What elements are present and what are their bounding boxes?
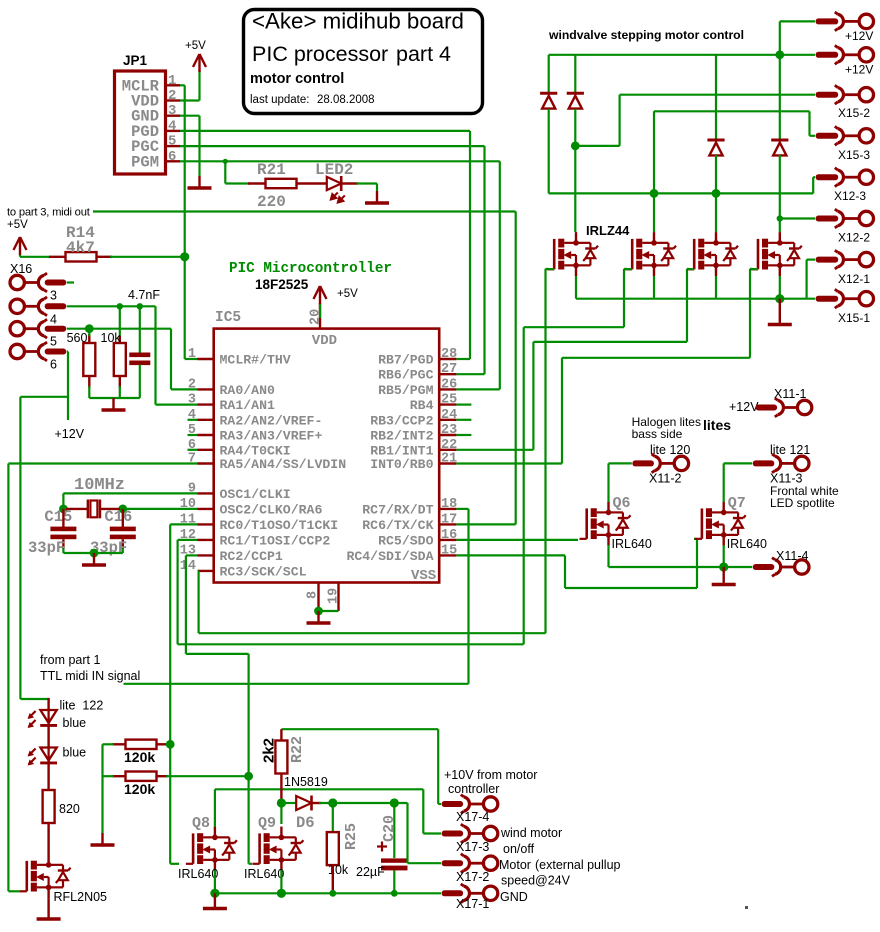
wire to lite string: [20, 698, 48, 700]
svg-text:LED spotlite: LED spotlite: [770, 496, 835, 510]
resistor 10k: [114, 343, 126, 376]
IC5 pin 20 VDD stub: [319, 303, 321, 328]
wire D1 bottom to X12-3 row: [548, 109, 550, 193]
connector X11-2: [632, 454, 688, 473]
wire RB1 vertical up: [532, 342, 534, 450]
resistor R25: [327, 832, 339, 865]
junction C20 bottom: [391, 890, 398, 897]
svg-text:IRL640: IRL640: [178, 867, 218, 881]
IC5 pin 22 stub: [439, 449, 456, 451]
svg-text:TTL midi IN signal: TTL midi IN signal: [40, 669, 140, 683]
svg-text:1: 1: [188, 347, 196, 362]
LED2 cathode lead: [342, 182, 358, 184]
svg-text:X11-2: X11-2: [649, 472, 681, 486]
svg-text:220: 220: [257, 193, 286, 211]
ground (LED2): [365, 191, 389, 203]
wire pin22 out: [456, 449, 533, 451]
svg-text:28.08.2008: 28.08.2008: [317, 94, 375, 106]
svg-text:C20: C20: [381, 815, 398, 842]
wire to D6: [281, 802, 296, 804]
IC5 pin 15 stub: [439, 554, 456, 556]
wire pin25 stub: [456, 404, 471, 406]
wire RC4 run: [565, 587, 697, 589]
wire PGM run: [180, 160, 500, 162]
svg-text:bass side: bass side: [632, 427, 683, 441]
svg-text:33pF: 33pF: [28, 539, 65, 557]
connector X11-3: [753, 454, 809, 473]
svg-text:RA3/AN3/VREF+: RA3/AN3/VREF+: [220, 429, 323, 444]
svg-text:5: 5: [50, 335, 57, 349]
wire drop to X17-3: [422, 789, 424, 833]
IC5 pin 16 stub: [439, 539, 456, 541]
svg-text:+5V: +5V: [337, 288, 358, 300]
IC5 pin 11 stub: [198, 523, 214, 525]
wire D3 top: [715, 55, 717, 140]
IC5 pin 19 stub: [337, 583, 339, 612]
connector X15-2: [816, 85, 874, 104]
wire X15-2 run: [620, 94, 815, 96]
svg-text:27: 27: [441, 362, 457, 377]
wire X12-3 stub: [813, 176, 815, 178]
IC5 pin 10 stub: [198, 508, 214, 510]
junction X16-4/10k: [117, 303, 123, 309]
wire D2 top: [574, 55, 576, 93]
svg-text:+5V: +5V: [185, 40, 206, 52]
ground (bottom bus): [203, 897, 227, 909]
wire RC4 riser to Q7 gate: [696, 539, 698, 588]
wire X16-5 vertical: [170, 329, 172, 390]
wire to R21: [225, 182, 250, 184]
junction PGM/R21: [223, 159, 228, 164]
wire RC4 drop: [564, 555, 566, 588]
svg-text:10k: 10k: [328, 863, 349, 877]
svg-text:25: 25: [441, 393, 457, 408]
connector X12-3: [816, 168, 874, 187]
IC5 pin 17 stub: [439, 523, 456, 525]
wire Q6 to X11-2: [609, 462, 632, 464]
svg-text:PGM: PGM: [131, 153, 159, 171]
svg-text:JP1: JP1: [123, 53, 148, 68]
connector X12-2: [816, 209, 874, 228]
wire pin27 out: [456, 373, 484, 375]
connector JP1: [115, 71, 166, 174]
820 bottom lead: [47, 823, 49, 854]
junction R25 top: [328, 798, 337, 807]
svg-text:2: 2: [188, 377, 196, 392]
svg-text:8: 8: [306, 591, 321, 599]
svg-text:21: 21: [441, 452, 457, 467]
wire X16-6 to +12V: [67, 352, 69, 421]
wire source bus to X11-4: [609, 566, 753, 568]
wire pin5 stub: [188, 434, 198, 436]
svg-text:IRL640: IRL640: [727, 537, 767, 551]
LED blue #2: [28, 748, 57, 766]
wire JP1-2 to +5V: [180, 99, 200, 101]
wire cap bottom: [139, 365, 141, 399]
C16 bottom lead: [122, 539, 124, 549]
svg-text:4: 4: [168, 118, 176, 134]
svg-text:560: 560: [67, 331, 88, 345]
svg-text:controller: controller: [448, 782, 499, 796]
wire Q7 to X11-3: [724, 462, 753, 464]
junction X12-3/T3: [712, 189, 721, 198]
svg-text:22µF: 22µF: [356, 865, 385, 879]
svg-text:24: 24: [441, 408, 457, 423]
wire pin4 stub: [188, 419, 198, 421]
JP1 pin 3 stub: [166, 114, 181, 116]
wire X16-3 stub: [67, 281, 74, 283]
svg-text:@24V: @24V: [535, 874, 571, 888]
svg-text:RB4: RB4: [410, 398, 434, 413]
svg-text:X17-4: X17-4: [456, 810, 489, 824]
svg-text:speed: speed: [501, 874, 535, 888]
connector X17-3: [442, 824, 498, 843]
wire cap top: [139, 306, 141, 353]
connector +12V (top): [816, 12, 874, 31]
svg-text:7: 7: [188, 452, 196, 467]
wire PGD run: [180, 130, 470, 132]
junction RC2/120k#2: [244, 772, 253, 781]
wire PGC run: [180, 145, 485, 147]
wire X16-4 run: [67, 305, 156, 307]
IC5 pin 6 stub: [198, 449, 214, 451]
IC5 pin 27 stub: [439, 373, 456, 375]
wire pin12 out: [178, 539, 198, 541]
wire PGD vertical to pin28: [469, 131, 471, 359]
junction crystal left: [59, 505, 68, 514]
C15 bottom lead: [62, 539, 64, 549]
IC5 pin 21 stub: [439, 462, 456, 464]
wire D4 top: [779, 55, 781, 140]
wire Q9 gate vertical: [248, 776, 250, 864]
wire R21 drop: [224, 161, 226, 183]
connector X15-1: [816, 289, 874, 308]
+5V supply arrow (JP1): [193, 54, 206, 72]
svg-text:+10V from motor: +10V from motor: [444, 768, 537, 782]
wire Q7 drain riser: [723, 463, 725, 502]
R21 lead left: [248, 182, 266, 184]
wire TTL midi run: [124, 683, 469, 685]
wire PGM vertical to pin26: [499, 161, 501, 389]
wire T4 gate riser: [749, 269, 751, 358]
svg-text:OSC2/CLKO/RA6: OSC2/CLKO/RA6: [220, 502, 323, 517]
wire D6 row: [319, 802, 408, 804]
C15 top lead: [62, 509, 64, 527]
connector X11-4: [753, 558, 809, 577]
capacitor 4.7nF: [129, 353, 150, 366]
transistor IRLZ44 #4: [751, 232, 802, 276]
ground (560/10k cluster): [102, 398, 126, 410]
svg-text:RC6/TX/CK: RC6/TX/CK: [362, 518, 433, 533]
svg-text:RB7/PGD: RB7/PGD: [378, 353, 433, 368]
LED blue #1: [28, 710, 57, 728]
svg-text:Q8: Q8: [192, 815, 210, 832]
svg-text:Q9: Q9: [258, 815, 276, 832]
wire RC1 run right: [178, 643, 524, 645]
svg-text:X15-3: X15-3: [838, 148, 870, 162]
svg-text:Motor: Motor: [499, 858, 531, 872]
wire OSC2 run: [123, 508, 198, 510]
C20 plus sign: [377, 842, 387, 852]
junction Q9 drain/D6: [277, 798, 286, 807]
wire 120k#2 left: [103, 775, 115, 777]
connector X17-4: [442, 795, 498, 814]
wire JP1-3 to GND: [180, 115, 200, 117]
transistor Q8 IRL640: [186, 827, 237, 871]
svg-text:X12-1: X12-1: [838, 272, 870, 286]
IC5 pin 1 stub: [198, 358, 214, 360]
wire RFL2N05 gate lead: [8, 890, 19, 892]
wire GND drop: [198, 116, 200, 176]
svg-text:RC2/CCP1: RC2/CCP1: [220, 549, 283, 564]
JP1 pin 1 stub: [166, 84, 181, 86]
svg-text:X11-1: X11-1: [774, 387, 806, 401]
+5V supply arrow (VDD): [314, 286, 327, 304]
wire X17-2 riser: [406, 803, 408, 863]
IC5 pin 12 stub: [198, 539, 214, 541]
JP1 pin 4 stub: [166, 130, 181, 132]
diode D4: [771, 140, 788, 155]
wire Q9 drain to D6 node: [280, 803, 282, 824]
wire T2 source drop: [653, 276, 655, 299]
wire X12-1 drop: [805, 260, 807, 299]
wire branch to RA5 net: [20, 396, 68, 398]
wire into X17-2: [408, 862, 442, 864]
wire VDD riser: [319, 304, 321, 319]
svg-text:28: 28: [441, 347, 457, 362]
ground (JP1 pin3): [188, 176, 212, 188]
svg-text:part 4: part 4: [396, 42, 451, 66]
svg-text:Q6: Q6: [613, 495, 631, 512]
wire RC2 run right: [186, 653, 249, 655]
svg-text:IRL640: IRL640: [612, 537, 652, 551]
JP1 pin 6 stub: [166, 160, 181, 162]
svg-text:last update:: last update:: [250, 94, 309, 106]
junction VSS: [314, 607, 323, 616]
wire pin18 out: [456, 508, 468, 510]
svg-text:RB3/CCP2: RB3/CCP2: [370, 413, 433, 428]
resistor R21: [266, 179, 297, 188]
svg-text:<Ake> midihub board: <Ake> midihub board: [252, 9, 464, 34]
wire 560 top: [88, 329, 90, 336]
connector X17-1: [442, 884, 498, 903]
svg-text:RC4/SDI/SDA: RC4/SDI/SDA: [346, 549, 433, 564]
svg-text:4k7: 4k7: [66, 239, 95, 257]
wire X15-2 tie to T1 drain: [575, 145, 619, 147]
wire pin24 stub: [456, 419, 471, 421]
svg-text:RC1/T1OSI/CCP2: RC1/T1OSI/CCP2: [220, 533, 331, 548]
junction X12-3/T2: [650, 189, 659, 198]
wire RA5 run: [8, 462, 197, 464]
svg-text:MCLR#/THV: MCLR#/THV: [220, 353, 291, 368]
svg-text:RB6/PGC: RB6/PGC: [378, 368, 433, 383]
wire RC3 run right: [199, 632, 546, 634]
diode D3: [707, 140, 724, 155]
wire Q7 gate tie: [694, 538, 697, 540]
svg-text:19: 19: [327, 588, 342, 604]
svg-text:16: 16: [441, 528, 457, 543]
svg-text:X15-1: X15-1: [838, 311, 870, 325]
wire OSC1 run: [63, 492, 197, 494]
junction X15-2 tap: [571, 142, 580, 151]
wire C20 bottom lead: [393, 870, 395, 893]
svg-text:OSC1/CLKI: OSC1/CLKI: [220, 487, 291, 502]
junction +12V rail: [775, 50, 784, 59]
svg-text:to part 3, midi out: to part 3, midi out: [7, 207, 91, 219]
svg-text:RC3/SCK/SCL: RC3/SCK/SCL: [220, 564, 307, 579]
svg-text:RB5/PGM: RB5/PGM: [378, 383, 433, 398]
wire pin16 to Q6 gate: [456, 539, 578, 541]
svg-text:14: 14: [180, 559, 196, 574]
wire LED2 to gnd: [356, 182, 377, 184]
wire far-left vertical to RFL2N05 gate: [7, 464, 9, 892]
junction RC0/120k#1: [166, 740, 175, 749]
wire 560 bottom: [88, 386, 90, 398]
resistor R22: [275, 741, 287, 774]
wire R25 top lead: [332, 803, 334, 832]
wire pin15 out: [456, 554, 565, 556]
wire LED2 gnd drop: [376, 184, 378, 192]
wire C20 top lead: [393, 803, 395, 858]
wire X15-3 stub: [810, 135, 816, 137]
connector X12-1: [816, 250, 874, 269]
svg-text:+12V: +12V: [55, 427, 85, 441]
wire T2 gate drop: [623, 269, 625, 327]
ground (stepper bus): [768, 313, 792, 325]
svg-text:X11-4: X11-4: [776, 549, 808, 563]
wire RC3 vertical up (T1 gate): [544, 269, 546, 633]
svg-text:2: 2: [168, 88, 176, 104]
svg-text:X15-2: X15-2: [838, 106, 870, 120]
ground (crystal): [82, 553, 106, 565]
wire T3 gate lead: [687, 268, 694, 271]
svg-text:10k: 10k: [101, 331, 122, 345]
svg-text:+5V: +5V: [7, 219, 28, 231]
wire midi out run: [93, 210, 516, 212]
transistor Q9 IRL640: [252, 827, 303, 871]
LED LED2: [327, 176, 345, 203]
wire RC1 vertical: [177, 540, 179, 644]
wire pin28 out: [456, 358, 470, 360]
junction C20 top: [390, 798, 399, 807]
wire Q9 gate lead: [249, 863, 252, 865]
wire RC7 vertical: [467, 509, 469, 684]
R14 lead left: [49, 256, 66, 258]
wire into X17-3: [423, 832, 441, 834]
svg-text:IC5: IC5: [215, 310, 241, 326]
wire X12-1 stub: [807, 259, 815, 261]
svg-text:1: 1: [168, 73, 176, 89]
op-amp?no: IC5 PIC body: [214, 329, 440, 583]
wire T3 gate riser: [686, 269, 688, 342]
junction R14/MCLR: [180, 252, 189, 261]
wire D3/T3 drain vertical: [715, 155, 717, 232]
wire +12V drop: [779, 21, 781, 54]
svg-text:windvalve stepping motor contr: windvalve stepping motor control: [548, 28, 744, 42]
wire JP1-1 to MCLR net: [180, 84, 185, 86]
560 bottom lead: [88, 376, 90, 388]
R22 bottom lead: [280, 774, 282, 804]
wire X12-3 row: [549, 192, 814, 194]
svg-text:120k: 120k: [124, 749, 155, 765]
junction X12-2/T4: [777, 215, 783, 221]
svg-text:3: 3: [168, 103, 176, 119]
wire Q8 drain run (motor on/off): [215, 788, 423, 790]
R22 top lead: [280, 729, 282, 742]
IC5 pin 2 stub: [198, 388, 214, 390]
wire Q6 drain riser: [607, 463, 609, 502]
svg-text:RC7/RX/DT: RC7/RX/DT: [362, 502, 433, 517]
svg-text:R21: R21: [257, 161, 286, 179]
wire left vertical (lite string feed): [19, 397, 21, 699]
svg-text:RA5/AN4/SS/LVDIN: RA5/AN4/SS/LVDIN: [220, 457, 347, 472]
IC5 pin 24 stub: [439, 419, 456, 421]
svg-text:RC5/SDO: RC5/SDO: [378, 533, 433, 548]
wire T1 gate lead: [546, 268, 555, 271]
svg-text:wind motor: wind motor: [500, 826, 562, 840]
svg-text:Q7: Q7: [728, 495, 746, 512]
decorative dot bottom right: [745, 906, 748, 909]
wire T2 gate run: [524, 326, 624, 328]
wire RC2 vertical: [185, 555, 187, 654]
ground (RFL2N05): [37, 907, 61, 919]
transistor Q7 IRL640: [695, 502, 746, 546]
wire 120k#1 tie: [166, 743, 170, 745]
svg-text:6: 6: [168, 149, 176, 165]
junction crystal gnd: [90, 549, 99, 558]
wire 120k#2 right: [166, 775, 249, 777]
junction X16-4/4.7nF: [137, 303, 143, 309]
transistor IRLZ44 #3: [687, 232, 738, 276]
wire X15-3 riser: [808, 111, 810, 136]
transistor IRLZ44 #1: [547, 232, 598, 276]
svg-text:PIC processor: PIC processor: [252, 42, 388, 66]
connector X15-3: [816, 126, 874, 145]
svg-text:15: 15: [441, 543, 457, 558]
wire +12V top: [780, 20, 815, 22]
LED interconnect: [47, 726, 49, 748]
svg-text:GND: GND: [500, 890, 528, 904]
wire T4 source drop: [779, 276, 781, 299]
ground (Q6/Q7): [712, 573, 736, 585]
120k#2 leads: [112, 775, 126, 777]
wire X15-3 run: [654, 110, 810, 112]
IC5 pin 23 stub: [439, 434, 456, 436]
diode D1: [540, 93, 557, 108]
svg-text:X12-3: X12-3: [834, 189, 866, 203]
wire X16-4 vertical: [154, 306, 156, 404]
svg-text:PIC Microcontroller: PIC Microcontroller: [229, 261, 392, 277]
junction R25 bottom: [329, 890, 336, 897]
IC5 pin 13 stub: [198, 554, 214, 556]
C16 top lead: [122, 509, 124, 527]
wire pin17 out: [456, 523, 515, 525]
connector X17-2: [442, 854, 498, 873]
svg-text:LED2: LED2: [315, 161, 353, 179]
wire 120k#1 left: [103, 743, 115, 745]
wire OSC1 drop: [62, 493, 64, 509]
wire pin13 out: [186, 554, 198, 556]
transistor RFL2N05: [20, 854, 71, 898]
svg-text:lite 122: lite 122: [60, 699, 104, 713]
wire RB0 run (T4 gate): [562, 357, 750, 359]
connector X11-1: [756, 398, 812, 417]
wire pin11 out: [170, 523, 197, 525]
wire T4 gate lead: [750, 268, 758, 271]
120k#1 leads: [112, 743, 126, 745]
svg-text:26: 26: [441, 377, 457, 392]
resistor 120k #2: [126, 772, 157, 781]
